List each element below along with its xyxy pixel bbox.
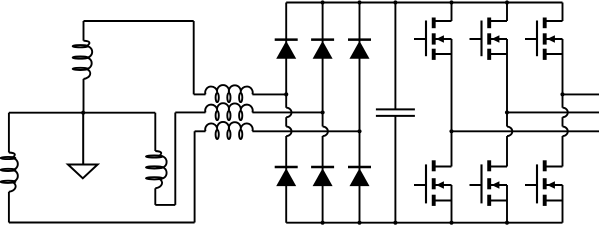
wire	[83, 21, 85, 41]
wire phase-a down	[193, 21, 195, 94]
wire phase-c	[252, 130, 359, 132]
wire output a	[452, 130, 600, 132]
node	[505, 0, 509, 4]
diode D6	[348, 167, 371, 186]
inductor La	[73, 41, 92, 79]
node	[449, 221, 453, 225]
wire	[563, 39, 568, 167]
wire output c	[563, 93, 600, 95]
node	[357, 0, 361, 4]
node	[449, 0, 453, 4]
transistor Q2 (high side)	[470, 18, 508, 60]
wire phase-c step	[155, 204, 175, 206]
inductor Lc	[146, 151, 167, 188]
wire phase-b	[252, 111, 322, 113]
wire dc+ rail	[286, 2, 562, 4]
node output c	[560, 92, 564, 96]
capacitor C1	[376, 109, 415, 116]
wire	[506, 185, 508, 223]
wire	[562, 185, 564, 223]
wire	[562, 3, 564, 22]
transistor Q1 (high side)	[414, 18, 452, 60]
diode D4	[275, 167, 298, 186]
wire dc- rail	[286, 222, 562, 224]
node	[393, 221, 397, 225]
wire phase-b up	[194, 131, 196, 222]
wire	[194, 93, 206, 95]
wire	[451, 3, 453, 22]
wire neutral	[9, 112, 155, 114]
node	[321, 221, 325, 225]
wire rectifier leg1	[286, 3, 291, 223]
wire	[394, 3, 396, 110]
node phase-a junction	[284, 92, 288, 96]
node	[357, 221, 361, 225]
wire phase-a	[252, 93, 286, 95]
inductor Lf1	[205, 85, 252, 102]
wire	[8, 113, 10, 153]
wire	[506, 3, 508, 22]
node output a	[449, 129, 453, 133]
wire	[451, 39, 453, 167]
node neutral junction	[81, 111, 85, 115]
diode D2	[311, 40, 334, 59]
node phase-b junction	[321, 110, 325, 114]
node	[393, 0, 397, 4]
transistor Q3 (high side)	[525, 18, 563, 60]
transistor Q6 (low side)	[525, 160, 563, 206]
node	[505, 221, 509, 225]
wire	[175, 111, 205, 113]
wire phase-a top	[84, 20, 194, 22]
wire phase-b bottom	[9, 222, 195, 224]
diode D5	[311, 167, 334, 186]
node	[321, 0, 325, 4]
diode D1	[275, 40, 298, 59]
ground	[68, 113, 98, 179]
wire	[507, 39, 512, 167]
wire	[451, 185, 453, 223]
node output b	[505, 110, 509, 114]
inductor Lb	[1, 153, 18, 192]
node phase-c junction	[357, 129, 361, 133]
wire rectifier leg2	[323, 3, 328, 223]
diode D3	[348, 40, 371, 59]
wire phase-c up	[174, 112, 176, 204]
inductor Lf2	[205, 103, 252, 120]
transistor Q4 (low side)	[414, 160, 452, 206]
wire	[154, 188, 156, 205]
wire	[195, 130, 206, 132]
wire	[154, 113, 156, 151]
wire output b	[507, 111, 599, 113]
wire rectifier leg3	[359, 3, 361, 223]
wire	[8, 192, 10, 223]
wire	[394, 116, 396, 223]
transistor Q5 (low side)	[470, 160, 508, 206]
inductor Lf3	[205, 122, 252, 139]
wire	[83, 79, 85, 113]
